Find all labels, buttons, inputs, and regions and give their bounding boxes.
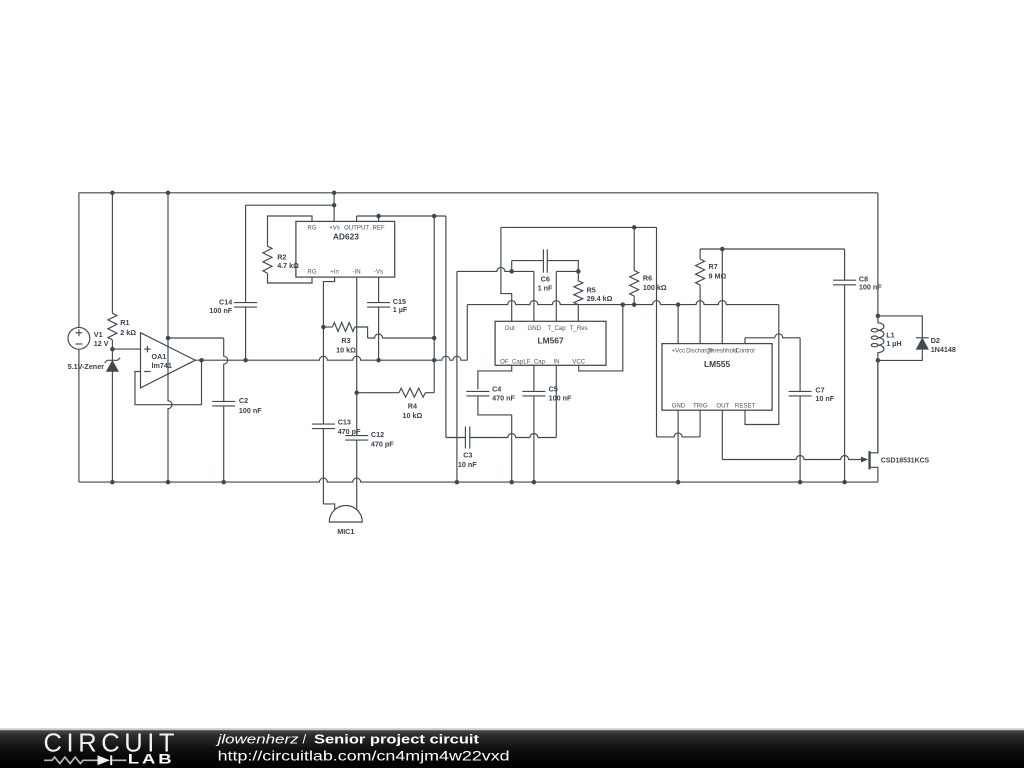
svg-text:10 kΩ: 10 kΩ bbox=[403, 411, 423, 420]
svg-text:C3: C3 bbox=[463, 451, 472, 460]
svg-text:470 pF: 470 pF bbox=[371, 440, 394, 449]
svg-text:D2: D2 bbox=[931, 336, 940, 345]
svg-text:C2: C2 bbox=[239, 396, 248, 405]
svg-text:Threshhold: Threshhold bbox=[707, 348, 737, 354]
svg-text:+In: +In bbox=[330, 269, 339, 276]
svg-text:CSD18531KCS: CSD18531KCS bbox=[881, 458, 930, 465]
svg-text:RG: RG bbox=[307, 269, 316, 276]
svg-text:T_Res: T_Res bbox=[570, 325, 588, 332]
svg-text:IN: IN bbox=[553, 359, 559, 366]
svg-text:Senior project circuit: Senior project circuit bbox=[314, 731, 480, 746]
svg-text:VCC: VCC bbox=[572, 359, 585, 366]
svg-text:12 V: 12 V bbox=[94, 339, 109, 348]
svg-text:-Vs: -Vs bbox=[374, 269, 383, 276]
svg-text:jlowenherz: jlowenherz bbox=[215, 731, 299, 746]
svg-text:T_Cap: T_Cap bbox=[547, 325, 566, 332]
svg-text:470 pF: 470 pF bbox=[338, 427, 361, 436]
svg-text:R4: R4 bbox=[408, 401, 417, 410]
svg-text:+Vs: +Vs bbox=[329, 225, 340, 232]
svg-text:LAB: LAB bbox=[128, 752, 175, 767]
svg-text:5.1V-Zener: 5.1V-Zener bbox=[68, 362, 105, 371]
svg-text:OF_Cap: OF_Cap bbox=[500, 359, 524, 366]
svg-text:100 nF: 100 nF bbox=[209, 306, 232, 315]
svg-text:LF_Cap: LF_Cap bbox=[523, 359, 545, 366]
svg-text:100 nF: 100 nF bbox=[549, 393, 572, 402]
svg-text:RG: RG bbox=[307, 225, 316, 232]
svg-text:lm741: lm741 bbox=[152, 361, 172, 370]
svg-text:29.4 kΩ: 29.4 kΩ bbox=[587, 294, 613, 303]
svg-text:10 nF: 10 nF bbox=[815, 394, 834, 403]
svg-text:10 kΩ: 10 kΩ bbox=[336, 346, 356, 355]
svg-text:1N4148: 1N4148 bbox=[931, 345, 956, 354]
svg-text:Out: Out bbox=[505, 325, 515, 332]
svg-text:/: / bbox=[303, 731, 307, 746]
svg-text:http://circuitlab.com/cn4mjm4w: http://circuitlab.com/cn4mjm4w22vxd bbox=[218, 749, 510, 764]
svg-text:100 kΩ: 100 kΩ bbox=[643, 283, 667, 292]
svg-text:1 µF: 1 µF bbox=[393, 305, 408, 314]
svg-text:OUTPUT: OUTPUT bbox=[344, 225, 369, 232]
svg-text:R7: R7 bbox=[709, 262, 718, 271]
svg-text:9 MΩ: 9 MΩ bbox=[709, 272, 727, 281]
svg-text:470 nF: 470 nF bbox=[492, 393, 515, 402]
svg-text:MIC1: MIC1 bbox=[337, 527, 354, 536]
svg-text:L1: L1 bbox=[886, 330, 894, 339]
svg-text:C12: C12 bbox=[371, 430, 384, 439]
svg-text:LM555: LM555 bbox=[704, 359, 730, 369]
svg-text:OUT: OUT bbox=[716, 403, 729, 410]
svg-text:R5: R5 bbox=[587, 286, 596, 295]
svg-text:100 nF: 100 nF bbox=[239, 406, 262, 415]
svg-text:RESET: RESET bbox=[735, 403, 756, 410]
svg-text:GND: GND bbox=[528, 325, 542, 332]
svg-text:4.7 kΩ: 4.7 kΩ bbox=[277, 261, 299, 270]
svg-text:V1: V1 bbox=[94, 330, 103, 339]
svg-text:REF: REF bbox=[373, 225, 385, 232]
svg-text:LM567: LM567 bbox=[538, 336, 564, 346]
svg-text:AD623: AD623 bbox=[333, 232, 359, 242]
svg-text:C6: C6 bbox=[541, 274, 550, 283]
svg-text:+Vcc: +Vcc bbox=[672, 348, 686, 354]
svg-text:2 kΩ: 2 kΩ bbox=[120, 328, 136, 337]
svg-text:TRIG: TRIG bbox=[693, 403, 708, 410]
svg-text:R3: R3 bbox=[341, 336, 350, 345]
svg-text:GND: GND bbox=[672, 403, 686, 410]
svg-text:100 nF: 100 nF bbox=[859, 282, 882, 291]
svg-text:R6: R6 bbox=[643, 273, 652, 282]
svg-text:C13: C13 bbox=[338, 418, 351, 427]
svg-text:1 nF: 1 nF bbox=[538, 283, 553, 292]
svg-text:R1: R1 bbox=[120, 318, 129, 327]
svg-text:-IN: -IN bbox=[353, 269, 361, 276]
svg-text:Control: Control bbox=[735, 348, 754, 354]
svg-text:1 µH: 1 µH bbox=[886, 339, 901, 348]
svg-text:10 nF: 10 nF bbox=[458, 460, 477, 469]
